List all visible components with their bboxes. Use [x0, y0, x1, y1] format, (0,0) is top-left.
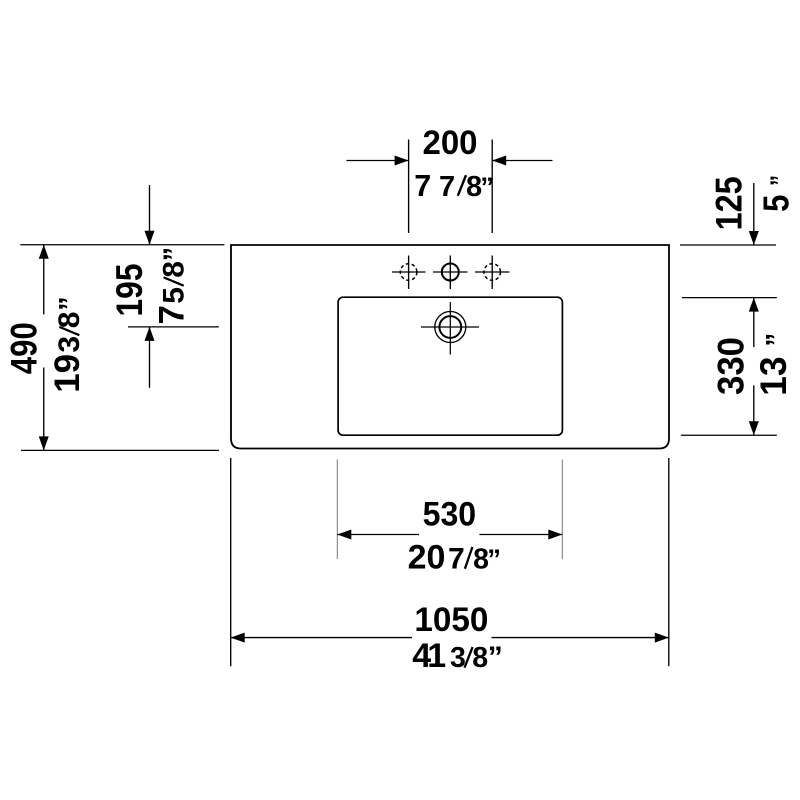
svg-text:41: 41	[412, 637, 446, 675]
svg-text:20: 20	[408, 539, 446, 577]
label 19 3/8" (rotated)	[48, 296, 87, 392]
svg-text:200: 200	[423, 124, 478, 162]
sink outer outline	[231, 245, 669, 449]
faucet hole middle solid circle	[442, 264, 459, 281]
svg-text:125: 125	[709, 176, 750, 230]
drain crosshair horizontal	[421, 326, 479, 328]
svg-text:7: 7	[414, 169, 431, 203]
left: drain-center extension line	[128, 326, 219, 328]
label 20 7/8"	[408, 539, 501, 577]
bottom: right long extension line	[668, 458, 670, 666]
faucet hole right crosshair	[475, 271, 510, 273]
svg-text:8: 8	[157, 261, 190, 278]
svg-text:1050: 1050	[414, 601, 488, 639]
svg-text:5: 5	[157, 287, 190, 304]
right: basin-top extension line	[682, 297, 777, 299]
530 dim line with arrows	[337, 534, 419, 536]
svg-text:330: 330	[711, 337, 752, 395]
label 7 7/8"	[414, 169, 494, 203]
right: top extension line	[680, 244, 776, 246]
right: basin-bottom extension line	[681, 434, 777, 436]
bottom: 530 right extension line	[561, 460, 563, 560]
svg-text:195: 195	[109, 264, 150, 317]
svg-text:”: ”	[488, 641, 503, 674]
svg-text:”: ”	[487, 544, 501, 575]
svg-text:7: 7	[152, 305, 191, 324]
svg-text:7: 7	[448, 543, 465, 576]
svg-text:”: ”	[54, 296, 86, 311]
1050 dim line with arrows	[231, 637, 412, 639]
svg-text:530: 530	[423, 495, 477, 533]
drain crosshair vertical	[449, 302, 451, 355]
490 dim line upper segment with up arrow	[43, 245, 45, 315]
svg-text:3: 3	[53, 336, 86, 353]
125 dim shaft with down arrow	[753, 183, 755, 245]
195 dim lower segment with up arrow	[149, 327, 151, 388]
200 dim line left segment with arrow	[347, 160, 409, 162]
left: bottom extension line	[21, 449, 219, 451]
svg-text:”: ”	[158, 247, 190, 262]
shared up arrow at basin-top ext	[753, 298, 755, 348]
label 41 3/8"	[412, 637, 503, 675]
faucet hole left dashed circle	[400, 264, 417, 281]
bottom: 530 left extension line	[336, 460, 338, 560]
label 7 5/8" (rotated)	[152, 247, 191, 325]
faucet hole middle crosshair	[433, 271, 468, 273]
drain inner circle	[439, 316, 461, 338]
svg-text:8: 8	[53, 312, 86, 329]
left: top extension line	[20, 244, 224, 246]
490 dim line lower segment with down arrow	[43, 368, 45, 451]
svg-text:7: 7	[439, 171, 455, 203]
basin inner outline	[338, 297, 562, 435]
drain outer circle	[435, 312, 466, 343]
faucet hole left crosshair	[392, 271, 426, 273]
195 dim upper segment with down arrow	[149, 185, 151, 245]
svg-text:3: 3	[450, 642, 466, 674]
200 dim: left extension line	[408, 140, 410, 234]
faucet hole right dashed circle	[484, 264, 501, 281]
200 dim line right segment with arrow	[492, 160, 552, 162]
bottom: left long extension line	[230, 458, 232, 666]
200 dim: right extension line	[491, 140, 493, 234]
330 dim down arrow at basin-bottom ext	[753, 385, 755, 435]
svg-text:19: 19	[48, 354, 87, 393]
svg-text:490: 490	[3, 322, 44, 374]
svg-text:”: ”	[480, 172, 494, 202]
svg-text:8: 8	[472, 642, 488, 674]
